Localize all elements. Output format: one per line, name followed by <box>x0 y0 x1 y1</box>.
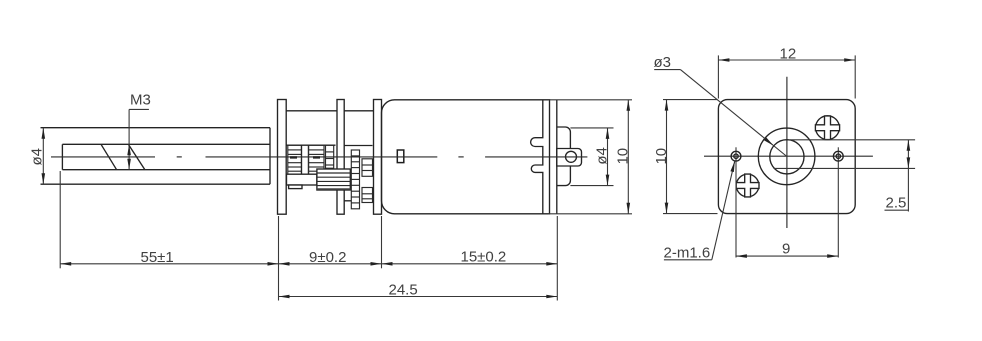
boss outer circle <box>758 128 815 185</box>
svg-text:9: 9 <box>782 241 790 258</box>
dimension D7 value 15±0.2 <box>382 249 558 266</box>
dimension D3 value ø4 (motor end) <box>570 128 613 186</box>
gearbox front plate <box>278 100 287 215</box>
svg-text:10: 10 <box>653 148 670 165</box>
dimension D4 value 10 (motor) <box>548 100 632 214</box>
gear G2 toothed column <box>309 145 325 174</box>
gear G5 tall toothed column <box>351 150 359 209</box>
gearbox middle plate <box>337 100 344 215</box>
gear G6 upper toothed block <box>362 159 373 177</box>
svg-text:ø4: ø4 <box>593 147 610 165</box>
shaft hole circle ø3 <box>770 140 804 174</box>
dimension D5 value 55±1 <box>60 249 278 266</box>
svg-text:9±0.2: 9±0.2 <box>309 249 346 266</box>
faceplate horizontal centerline <box>704 155 873 157</box>
svg-text:2-m1.6: 2-m1.6 <box>664 245 711 262</box>
gear hub tab <box>289 185 302 189</box>
screw SC1 top right <box>815 116 839 140</box>
dimension D10 value 10 (faceplate) <box>653 100 718 214</box>
wire main axis centerline (side view) <box>51 156 587 158</box>
svg-text:24.5: 24.5 <box>389 282 418 299</box>
mounting hole H2 right <box>833 147 843 257</box>
gear train top edge <box>286 144 335 146</box>
gearbox top rail 1 <box>286 110 337 112</box>
svg-text:M3: M3 <box>130 92 151 109</box>
dimension D2 value M3 <box>127 92 151 170</box>
extension line 55 left <box>59 171 61 268</box>
leader ø3 <box>654 54 787 157</box>
gear hub band <box>287 174 317 185</box>
dimension D11 value 9 (holes) <box>736 241 838 258</box>
motor end cap face <box>556 100 558 214</box>
gear G6 lower toothed block <box>362 188 373 203</box>
leader 2-m1.6 <box>664 161 735 262</box>
dimension D6 value 9±0.2 <box>279 249 382 266</box>
gear arbor top line <box>344 145 372 147</box>
gear G3 toothed column <box>326 145 334 168</box>
faceplate vertical centerline <box>786 77 788 228</box>
shaft S1 body <box>62 144 270 169</box>
motor end bump <box>557 127 571 186</box>
dimension D9 value 12 <box>718 46 855 99</box>
shaft break mark 2 <box>128 144 145 169</box>
svg-text:ø4: ø4 <box>28 148 45 166</box>
motor can body <box>382 100 550 214</box>
motor terminal tab small <box>397 150 404 163</box>
motor shaft terminal plate <box>557 149 582 167</box>
svg-text:2.5: 2.5 <box>886 195 907 212</box>
dimension D1 value ø4 (left) <box>28 128 45 185</box>
gear shaft white column <box>302 145 309 174</box>
gear center dash marks <box>290 156 320 158</box>
shaft break mark 1 <box>101 144 117 169</box>
shaft S1 outer envelope top <box>41 127 271 129</box>
mounting hole H1 left <box>731 147 741 257</box>
gearbox bearing boss <box>269 128 271 185</box>
dimension D8 value 24.5 <box>279 282 558 299</box>
extension line motor end <box>556 216 558 301</box>
faceplate outline <box>718 100 855 214</box>
gearbox rear plate <box>374 100 382 215</box>
svg-text:ø3: ø3 <box>654 54 672 71</box>
gear G1 toothed column <box>288 145 302 174</box>
shaft S1 outer envelope bottom <box>41 183 271 185</box>
svg-text:55±1: 55±1 <box>141 249 174 266</box>
extension line gearbox rear <box>381 216 383 268</box>
svg-text:12: 12 <box>780 46 797 63</box>
extension line gearbox front <box>278 216 280 301</box>
svg-text:10: 10 <box>615 148 632 165</box>
svg-text:15±0.2: 15±0.2 <box>461 249 507 266</box>
motor shaft end circle <box>566 151 577 162</box>
gear arbor bottom line <box>344 200 351 202</box>
motor brush line with notches <box>531 100 543 214</box>
gear G4 output gear <box>317 169 350 190</box>
screw SC2 bottom left <box>736 174 759 197</box>
dimension D12 value 2.5 <box>774 140 916 212</box>
gearbox top rail 2 <box>344 110 373 112</box>
